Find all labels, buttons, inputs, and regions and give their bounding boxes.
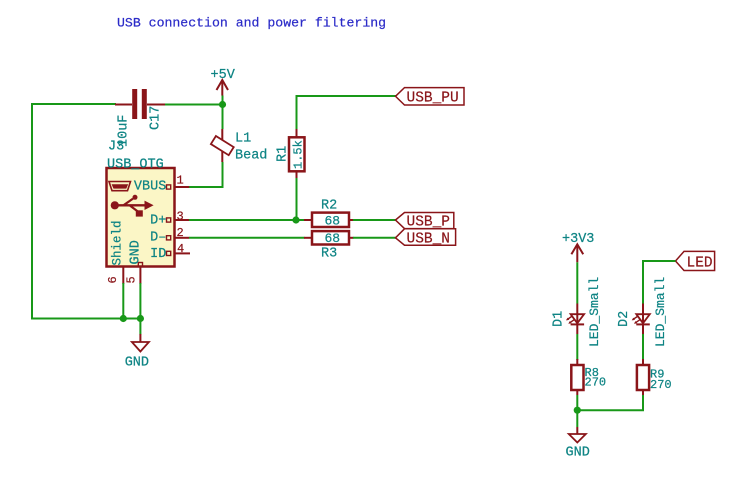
svg-text:68: 68: [325, 231, 341, 246]
svg-text:6: 6: [106, 276, 120, 283]
resistor R9: [637, 359, 649, 395]
USB_OTG connector J3 body: [107, 168, 175, 267]
svg-text:GND: GND: [566, 446, 590, 461]
wire LED flag to D2: [643, 261, 676, 304]
pin 3 D+: [150, 209, 189, 228]
net flag USB_P: [396, 213, 454, 231]
wire left loop from C17 left to ground rail: [32, 104, 140, 319]
wire R2 to USB_P: [353, 219, 397, 221]
junction led gnd node: [574, 407, 581, 414]
wire pin 5 to ground rail: [139, 283, 141, 319]
svg-text:1: 1: [177, 174, 184, 188]
junction shield node: [120, 315, 127, 322]
resistor R8: [571, 359, 583, 395]
wire D2 to R9: [642, 334, 644, 360]
wire L1 bottom to VBUS pin 1: [189, 162, 223, 187]
svg-text:1.5k: 1.5k: [292, 140, 306, 169]
wire C17 right to +5V junction: [165, 104, 223, 106]
mini-USB receptacle icon: [109, 182, 131, 191]
wire pin 6 to ground rail: [122, 283, 124, 319]
wire junction down: [576, 410, 578, 427]
junction +5V node: [219, 101, 226, 108]
svg-text:L1: L1: [235, 132, 251, 147]
svg-text:GND: GND: [129, 240, 144, 264]
wire R3 to USB_N: [353, 237, 397, 239]
pin 5 GND: [125, 240, 144, 284]
pin 2 D-: [150, 226, 189, 245]
wire +5V vertical through junction to L1: [222, 96, 224, 130]
USB trident icon: [111, 195, 154, 217]
svg-text:D–: D–: [150, 230, 166, 245]
wire D+ pin to R2: [189, 219, 305, 221]
resistor R2: [304, 213, 354, 227]
svg-text:LED_Small: LED_Small: [587, 277, 602, 347]
svg-text:GND: GND: [125, 356, 149, 371]
svg-text:D+: D+: [150, 214, 166, 229]
svg-text:R3: R3: [321, 246, 337, 261]
svg-text:ID: ID: [150, 247, 166, 262]
junction gnd node: [137, 315, 144, 322]
svg-text:USB_N: USB_N: [407, 232, 451, 248]
pin 4 ID: [150, 242, 190, 262]
svg-text:270: 270: [650, 378, 672, 392]
pin 1 VBUS: [134, 174, 189, 195]
svg-text:D2: D2: [617, 311, 632, 327]
svg-text:Shield: Shield: [111, 220, 125, 265]
resistor R1: [289, 129, 305, 179]
net flag USB_N: [396, 229, 456, 248]
wire D- pin to R3: [189, 237, 305, 239]
pin 6 Shield: [106, 220, 125, 284]
svg-text:270: 270: [585, 376, 607, 390]
svg-text:Bead: Bead: [235, 148, 267, 163]
svg-text:R2: R2: [321, 199, 337, 214]
svg-text:4: 4: [177, 242, 184, 256]
LED D2: [632, 304, 650, 335]
svg-text:LED_Small: LED_Small: [653, 277, 668, 347]
svg-text:USB_OTG: USB_OTG: [107, 158, 164, 173]
svg-text:USB connection and power filte: USB connection and power filtering: [117, 16, 386, 31]
svg-text:R1: R1: [276, 146, 291, 162]
wire D1 to R8: [576, 334, 578, 360]
wire +3V3 to D1: [576, 262, 578, 303]
svg-text:J3: J3: [108, 140, 124, 155]
svg-text:D1: D1: [552, 311, 567, 327]
wire R1 bottom to D+ junction: [296, 178, 298, 220]
LED D1: [566, 304, 584, 335]
power +5V: [211, 68, 236, 96]
ferrite bead L1: [211, 129, 234, 162]
svg-text:2: 2: [177, 226, 184, 240]
svg-text:LED: LED: [687, 256, 713, 272]
net flag LED: [676, 251, 715, 271]
wire R1 top to USB_PU: [297, 96, 398, 129]
wire bottom rail to R9 branch: [577, 395, 643, 411]
svg-text:3: 3: [177, 209, 184, 223]
svg-text:VBUS: VBUS: [134, 180, 166, 195]
net flag USB_PU: [396, 88, 465, 107]
ground GND left: [125, 334, 149, 371]
wire gnd drop: [139, 319, 141, 335]
ground GND right: [566, 427, 590, 461]
svg-text:5: 5: [125, 276, 139, 283]
junction D+ node: [292, 216, 299, 223]
wire R8 to gnd junction: [576, 395, 578, 410]
power +3V3: [562, 232, 594, 262]
svg-text:68: 68: [325, 213, 341, 228]
resistor R3: [304, 231, 354, 244]
svg-text:USB_PU: USB_PU: [407, 91, 459, 107]
capacitor C17: [115, 89, 165, 119]
svg-text:C17: C17: [149, 106, 164, 130]
